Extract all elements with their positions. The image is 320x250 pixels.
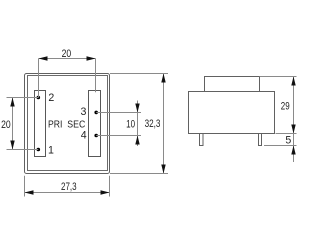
top dimension 20 right arrow (87, 56, 96, 60)
pin 1 dot (37, 148, 41, 152)
dimension 29 line (293, 77, 295, 134)
svg-text:2: 2 (48, 92, 54, 104)
dimension 32,3 line (163, 74, 165, 174)
pin 3 dot (94, 111, 98, 115)
side view left pin (200, 134, 204, 146)
side view right pin (259, 134, 262, 146)
left dimension 20 line (12, 98, 14, 150)
svg-text:10: 10 (126, 119, 135, 131)
extension line bottom right (109, 176, 111, 197)
svg-text:32,3: 32,3 (145, 118, 161, 130)
dimension 27,3 right arrow (101, 190, 110, 194)
dimension 10 line (137, 101, 139, 147)
side view body (189, 92, 275, 134)
extension line top view top edge (110, 73, 168, 75)
primary slot (35, 91, 46, 157)
side view top cap (205, 77, 260, 92)
top dimension 20 left arrow (39, 56, 48, 60)
pin 2 dot (37, 96, 41, 100)
dimension 32,3 top arrow (161, 74, 165, 83)
svg-text:3: 3 (80, 106, 86, 118)
extension line cap top (260, 76, 297, 78)
svg-text:SEC: SEC (67, 120, 85, 131)
dimension 32,3 bottom arrow (161, 165, 165, 174)
pin 4 dot (94, 134, 98, 138)
svg-text:20: 20 (62, 48, 72, 60)
svg-text:5: 5 (285, 135, 291, 147)
transformer top view inner lid seam (28, 76, 108, 171)
dimension 5 line (293, 134, 295, 163)
top dimension extension line left (38, 59, 40, 98)
extension line pin3 row (96, 112, 141, 114)
dimension 29 bottom arrow (291, 125, 295, 134)
dimension 29 top arrow (291, 77, 295, 86)
extension line top view bottom edge (110, 173, 168, 175)
dimension 27,3 line (25, 192, 110, 194)
extension line bottom left (24, 176, 26, 197)
svg-text:20: 20 (1, 119, 11, 131)
extension line pin bottom (264, 145, 297, 147)
top dimension 20 line (39, 58, 96, 60)
dimension 27,3 left arrow (25, 190, 34, 194)
secondary slot (89, 91, 101, 157)
left dimension 20 top arrow (10, 98, 14, 107)
top dimension extension line right (95, 59, 97, 93)
dimension 5 bottom arrow (291, 146, 295, 155)
svg-text:PRI: PRI (48, 120, 62, 131)
svg-text:29: 29 (281, 100, 290, 112)
left dimension extension line pin1 row (7, 149, 39, 151)
extension line pin4 row (96, 135, 141, 137)
left dimension extension line pin2 row (7, 97, 39, 99)
extension line body bottom (276, 133, 297, 135)
svg-text:1: 1 (48, 144, 54, 156)
left dimension 20 bottom arrow (10, 141, 14, 150)
dimension 10 bottom arrow (135, 136, 139, 145)
transformer top view outer body (25, 74, 110, 174)
svg-text:27,3: 27,3 (61, 181, 77, 193)
svg-text:4: 4 (81, 130, 87, 142)
dimension 10 top arrow (135, 104, 139, 113)
